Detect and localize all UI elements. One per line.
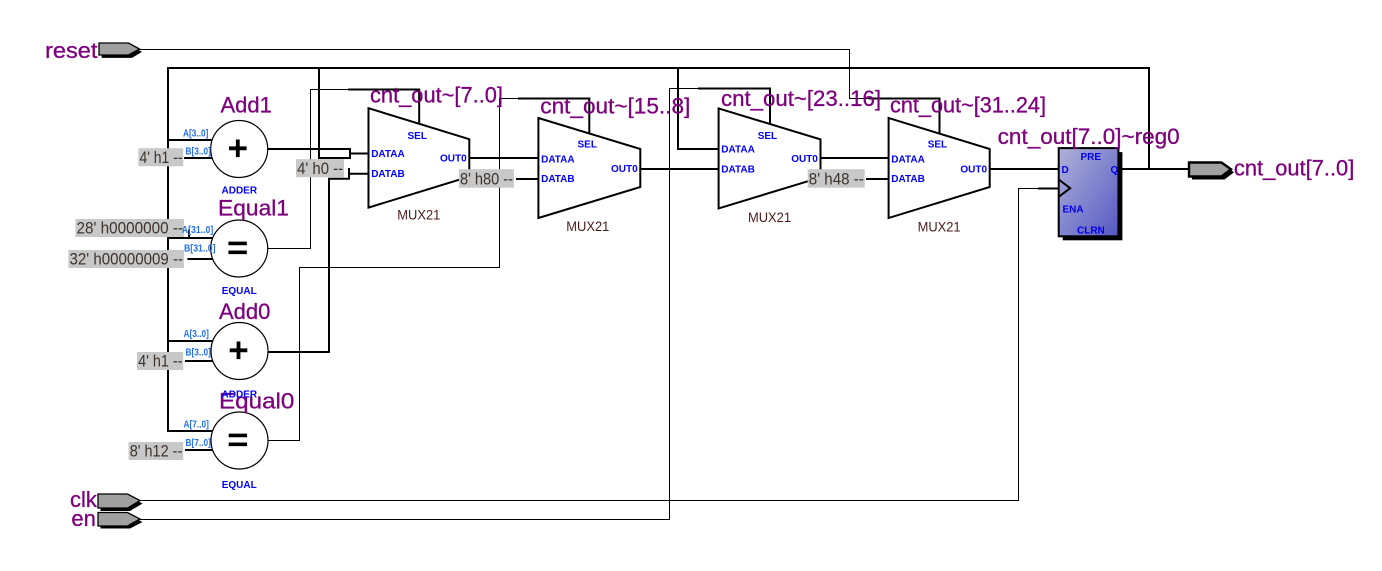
input pin en symbol [98,513,143,529]
svg-text:B[3..0]: B[3..0] [186,147,211,158]
register cnt_out[7..0]~reg0 body [1059,148,1119,236]
svg-text:MUX21: MUX21 [748,209,791,225]
svg-text:en: en [71,506,95,531]
svg-text:cnt_out[7..0]: cnt_out[7..0] [1234,156,1354,181]
svg-text:8' h80 --: 8' h80 -- [460,169,513,188]
wire MUX4 OUT0 to register D [989,168,1059,170]
svg-text:EQUAL: EQUAL [222,480,257,491]
svg-text:ENA: ENA [1063,204,1084,215]
wire MUX2 SEL stub [518,99,589,135]
mux MUX21 #4 body [889,118,990,218]
register cnt_out[7..0]~reg0 shadow [1063,152,1123,240]
svg-text:SEL: SEL [758,131,777,142]
wire Equal1 input A [167,237,213,239]
svg-text:OUT0: OUT0 [611,164,638,175]
svg-text:8' h48 --: 8' h48 -- [809,169,864,188]
svg-text:8' h12 --: 8' h12 -- [130,442,183,461]
svg-text:cnt_out~[23..16]: cnt_out~[23..16] [721,86,881,111]
svg-text:4' h0 --: 4' h0 -- [297,159,343,178]
wire Add1 input B [184,157,213,159]
value box 8'h12 for Equal0 B [129,442,184,461]
register clock chevron [1059,180,1071,197]
svg-text:A[3..0]: A[3..0] [184,329,209,340]
mux MUX21 #2 body [538,118,640,218]
mux MUX21 #1 body [369,108,470,207]
wire Add0 output riser to MUX1 DATAB [268,179,350,352]
svg-text:OUT0: OUT0 [440,153,467,164]
adder Add1 circle [211,121,268,178]
svg-text:4' h1 --: 4' h1 -- [138,352,182,371]
svg-text:DATAA: DATAA [891,154,925,165]
port labels MUX4 [891,140,987,186]
svg-text:32' h00000009 --: 32' h00000009 -- [70,250,184,269]
svg-text:OUT0: OUT0 [960,165,987,176]
svg-text:B[7..0]: B[7..0] [186,438,211,449]
wire MUX3 DATAA stub [677,148,720,150]
value box 32'h00000009 for Equal1 B [68,250,183,269]
svg-text:MUX21: MUX21 [397,207,440,223]
svg-text:Q: Q [1111,165,1119,176]
value box 8'h80 for MUX2 DATAB [459,169,514,188]
svg-text:MUX21: MUX21 [918,219,961,235]
wire Add1 input A [167,139,213,141]
svg-text:ADDER: ADDER [222,186,258,197]
svg-text:4' h1 --: 4' h1 -- [140,148,183,167]
wire Equal1 output to MUX1 SEL [267,90,348,249]
svg-text:PRE: PRE [1081,152,1102,163]
wire MUX1 DATAB fork bracket [349,168,370,180]
svg-text:A[3..0]: A[3..0] [183,129,208,140]
port labels MUX1 [371,131,467,180]
svg-text:Add0: Add0 [219,299,270,324]
svg-text:Equal1: Equal1 [218,196,289,221]
svg-text:A[31..0]: A[31..0] [182,225,214,236]
svg-text:cnt_out[7..0]~reg0: cnt_out[7..0]~reg0 [998,124,1180,149]
wire MUX3 OUT0 to MUX4 DATAA [820,157,890,159]
wire MUX1 OUT0 to MUX2 DATAA [468,157,539,159]
wire feedback drop to MUX3 DATAA [677,68,679,149]
mux MUX21 #3 body [719,108,821,208]
svg-text:DATAA: DATAA [721,144,755,155]
wire register Q to output pin [1120,168,1189,170]
value box 4'h1 for Add0 B [137,352,183,371]
wire en net: pin up to MUX3 SEL [140,89,698,520]
svg-text:B[3..0]: B[3..0] [186,348,211,359]
svg-text:DATAB: DATAB [371,169,405,180]
wire Equal1 const A stub [188,230,190,239]
svg-text:28' h0000000 --: 28' h0000000 -- [77,219,184,238]
wire feedback drop to MUX1 DATAA fork [318,68,320,158]
wire Equal0 input A [167,430,213,432]
svg-text:A[7..0]: A[7..0] [184,420,209,431]
wire MUX2 OUT0 to MUX3 DATAB [639,168,719,170]
svg-text:SEL: SEL [928,140,947,151]
svg-text:B[31..0]: B[31..0] [184,244,216,255]
input pin clk symbol [98,494,143,511]
output pin cnt_out[7..0] symbol [1189,163,1234,180]
svg-text:MUX21: MUX21 [566,218,609,234]
svg-text:cnt_out~[7..0]: cnt_out~[7..0] [370,83,503,108]
wire Equal0 input B [185,449,213,451]
svg-text:DATAA: DATAA [371,149,405,160]
value box 28'h0000000 for Equal1 A [75,219,183,238]
value box 8'h48 for MUX4 DATAB [808,169,865,188]
wire MUX1 DATAA fork bracket [318,148,370,159]
svg-text:DATAB: DATAB [721,165,755,176]
svg-text:DATAB: DATAB [541,174,575,185]
svg-text:reset: reset [45,38,98,63]
svg-text:cnt_out~[15..8]: cnt_out~[15..8] [540,94,690,119]
svg-text:DATAA: DATAA [541,154,575,165]
wire MUX1 SEL stub [348,90,419,124]
port labels MUX3 [721,131,818,176]
svg-text:OUT0: OUT0 [791,154,818,165]
wire reset net: pin to corner [139,50,869,99]
svg-text:Add1: Add1 [221,93,272,118]
wire const 8h80 to MUX2 DATAB [516,178,539,180]
port labels MUX2 [541,140,638,186]
svg-text:ADDER: ADDER [222,390,258,401]
wire feedback bus Q to inputs (top rail, left rail, right riser) [168,68,1149,431]
adder Add0 circle [211,323,268,380]
value box 4'h1 for Add1 B [138,148,183,167]
input pin reset symbol [99,43,142,58]
wire reset SEL stub into MUX4 [869,99,940,135]
wire clk stub into register clock [1038,188,1059,190]
svg-text:D: D [1062,165,1069,176]
wire clk net: pin to register clock [140,189,1038,501]
value box 4'h0 for MUX1 DATAB [296,159,344,178]
svg-text:EQUAL: EQUAL [222,286,257,297]
wire const 8h48 to MUX4 DATAB [866,178,890,180]
wire Add1 output to fork [267,148,350,150]
svg-text:cnt_out~[31..24]: cnt_out~[31..24] [890,93,1046,118]
comparator Equal0 circle [211,412,268,469]
svg-text:SEL: SEL [408,131,427,142]
comparator Equal1 circle [211,220,268,277]
wire Add0 input A [167,340,214,342]
wire en SEL segment thick into MUX3 [698,89,770,125]
svg-text:SEL: SEL [578,140,597,151]
wire Add0 input B [185,360,214,362]
svg-text:CLRN: CLRN [1077,225,1105,236]
svg-text:DATAB: DATAB [891,174,925,185]
wire Equal1 input B [187,258,213,260]
wire Equal0 output to MUX2 SEL [268,99,519,441]
